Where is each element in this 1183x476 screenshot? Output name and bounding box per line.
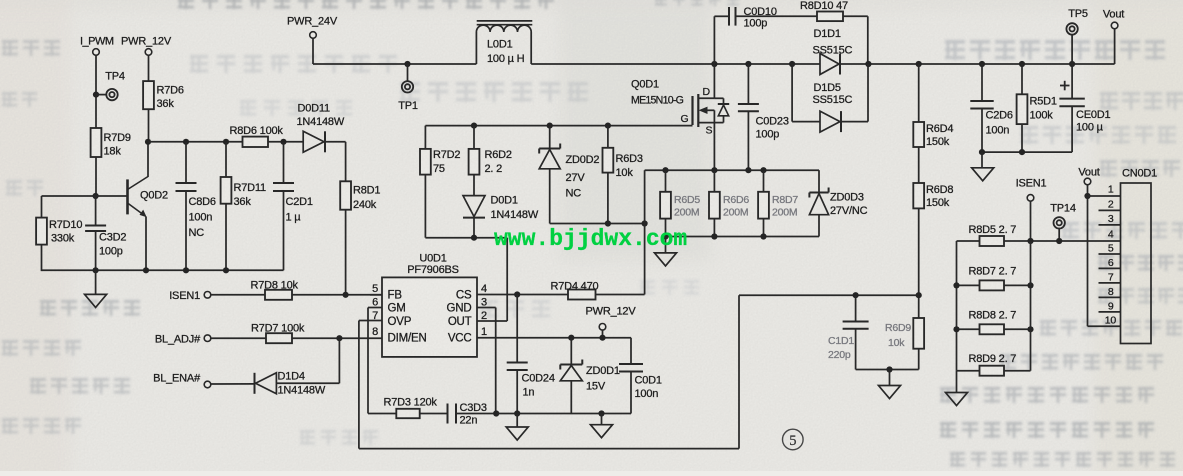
ground symbol mid (601, 414, 603, 425)
wire R7D8 to FB pin (292, 294, 382, 296)
node C3D2 ground (93, 267, 99, 273)
node R5D1 bottom (1019, 149, 1025, 155)
svg-text:100p: 100p (756, 129, 780, 141)
node R8D7 right (1027, 282, 1033, 288)
inductor L0D1 (475, 32, 477, 64)
svg-text:C2D1: C2D1 (286, 196, 313, 208)
wire base node left (42, 195, 96, 197)
schematic sheet number 5 (783, 429, 804, 450)
node PWR_12V (599, 335, 605, 341)
svg-text:1N4148W: 1N4148W (278, 385, 326, 397)
svg-text:R8D5 2. 7: R8D5 2. 7 (969, 224, 1017, 236)
wire ISEN1 to R7D8 (211, 294, 265, 296)
svg-text:ZD0D3: ZD0D3 (830, 192, 864, 204)
svg-text:5: 5 (1108, 243, 1114, 255)
svg-text:36k: 36k (234, 196, 252, 208)
node OVP sense (916, 292, 922, 298)
svg-text:CS: CS (456, 290, 472, 302)
capacitor C0D10 bypass (713, 16, 715, 64)
wire collector up (147, 142, 149, 177)
wire drain (713, 64, 715, 98)
body diode Q0D1 (714, 97, 723, 99)
node R6D5 bottom (662, 233, 668, 239)
node base (93, 193, 99, 199)
diode D0D11 (303, 131, 324, 152)
node R8D7 bottom (760, 233, 766, 239)
node C2D6 top (979, 61, 985, 67)
node R6D6 bottom (711, 233, 717, 239)
pin 2 stub (1099, 209, 1121, 211)
node C8D6 ground (183, 267, 189, 273)
svg-text:R8D7: R8D7 (772, 194, 798, 206)
wire R7D4 to CS net vertical (596, 294, 645, 296)
node R6D3 top (605, 123, 611, 129)
node collector rail left (145, 139, 151, 145)
ground symbol 200M group (665, 237, 667, 253)
svg-text:200M: 200M (674, 207, 699, 219)
svg-text:1N4148W: 1N4148W (491, 209, 539, 221)
node snub ground (886, 366, 892, 372)
svg-text:C0D23: C0D23 (756, 116, 789, 128)
svg-text:200M: 200M (772, 207, 797, 219)
node TP5 junction (1069, 61, 1075, 67)
svg-text:R6D3: R6D3 (616, 153, 643, 165)
capacitor C2D1 (283, 142, 285, 183)
node drain (711, 61, 717, 67)
wire output filter ground rail (982, 151, 1072, 153)
ground symbol left (95, 270, 97, 294)
wire PWR_24V down (312, 38, 314, 64)
transistor Q0D2 (126, 179, 129, 214)
resistor R8D7 (763, 170, 765, 192)
wire D1D4 up to DIM node (338, 338, 340, 383)
svg-text:8: 8 (372, 326, 378, 338)
wire R7D10 to ground rail (41, 245, 43, 272)
wire 200M group top rail (645, 169, 819, 171)
node C1D1 top (853, 292, 859, 298)
capacitor CE0D1 electrolytic (1060, 85, 1070, 87)
wire GM pin to compensation (368, 307, 382, 309)
resistor R6D6 (713, 170, 715, 192)
diode D1D4 (256, 373, 277, 394)
wire R7D9 to base node (95, 157, 97, 196)
svg-text:100n: 100n (189, 212, 213, 224)
svg-text:SS515C: SS515C (813, 94, 853, 106)
capacitor C2D6 (981, 64, 983, 101)
svg-text:1: 1 (1108, 184, 1114, 196)
node R8D7 left (953, 282, 959, 288)
svg-text:330k: 330k (51, 233, 75, 245)
svg-text:75: 75 (433, 163, 445, 175)
wire D0D11 to R8D1 (326, 141, 346, 143)
ground symbol output filter (981, 152, 983, 168)
svg-text:TP4: TP4 (105, 71, 125, 83)
node ISEN1 tap (1027, 238, 1033, 244)
wire PWR_12V down (148, 55, 150, 81)
node TP4 junction (93, 92, 99, 98)
node R5D1 top (1019, 61, 1025, 67)
svg-text:ISEN1: ISEN1 (1016, 178, 1047, 190)
node Vout pin1 (1084, 193, 1090, 199)
node FB (343, 292, 349, 298)
wire rail inductor to D1D1 (531, 63, 820, 65)
node GND compensation (493, 410, 499, 416)
wire 200M group bottom rail (666, 236, 820, 238)
node R7D11 ground (223, 267, 229, 273)
wire BL_ENA to D1D4 (211, 383, 255, 385)
svg-text:BL_ADJ#: BL_ADJ# (155, 334, 201, 346)
svg-text:100k: 100k (1030, 110, 1054, 122)
wire VCC pin right (477, 337, 631, 339)
node ZD0D1 top (568, 335, 574, 341)
wire compensation ground run (496, 413, 631, 415)
svg-text:R6D6: R6D6 (723, 194, 749, 206)
pin 7 stub (1099, 282, 1121, 284)
zener diode ZD0D1 (570, 338, 572, 365)
resistor R6D4 (918, 64, 920, 122)
svg-text:10k: 10k (888, 337, 905, 349)
svg-text:R7D9: R7D9 (104, 132, 131, 144)
svg-text:R7D10: R7D10 (49, 219, 82, 231)
capacitor C3D2 (95, 196, 97, 226)
wire D1D1 cathode to output rail (841, 63, 1115, 65)
wire gate drive bus (425, 237, 507, 239)
svg-text:R7D4 470: R7D4 470 (551, 281, 599, 293)
node C0D23 bottom (745, 167, 751, 173)
ground symbol snub (889, 370, 891, 386)
svg-text:10: 10 (1105, 315, 1117, 327)
node R7D11 top (223, 139, 229, 145)
svg-text:CN0D1: CN0D1 (1122, 168, 1157, 180)
resistor R8D6 (243, 137, 269, 147)
svg-text:5: 5 (372, 283, 378, 295)
svg-text:NC: NC (189, 227, 205, 239)
svg-text:R6D8: R6D8 (926, 184, 953, 196)
resistor R8D8 (957, 328, 1031, 330)
svg-text:NC: NC (566, 188, 582, 200)
svg-text:100p: 100p (744, 18, 768, 30)
capacitor C0D1 (630, 338, 632, 364)
node D1D5 branch (789, 61, 795, 67)
wire OUT pin up to gate drive (477, 320, 507, 322)
pin 6 stub (1099, 267, 1121, 269)
node R6D4 top (916, 61, 922, 67)
wire Vout bus (1087, 185, 1089, 326)
svg-text:OVP: OVP (388, 316, 412, 328)
resistor R7D2 (420, 149, 431, 175)
pin 5 stub (1099, 253, 1121, 255)
pin 10 stub (1088, 325, 1121, 327)
svg-text:R7D8 10k: R7D8 10k (251, 280, 299, 292)
svg-text:150k: 150k (926, 197, 950, 209)
svg-text:FB: FB (388, 290, 403, 302)
svg-text:C3D2: C3D2 (99, 232, 126, 244)
svg-text:1 µ: 1 µ (286, 212, 302, 224)
node R6D2 top (471, 123, 477, 129)
svg-text:ZD0D2: ZD0D2 (566, 154, 600, 166)
svg-text:100 µ: 100 µ (1076, 122, 1104, 134)
svg-text:R8D1: R8D1 (353, 185, 380, 197)
svg-text:TP1: TP1 (398, 100, 418, 112)
svg-text:2: 2 (1108, 199, 1114, 211)
op-amp U1 IC U0D1 PF7906BS (382, 277, 477, 357)
svg-text:R7D11: R7D11 (234, 182, 267, 194)
diode D1D1 (820, 54, 839, 75)
resistor R7D7 (266, 333, 292, 343)
svg-text:15V: 15V (586, 381, 606, 393)
svg-text:6: 6 (1108, 257, 1114, 269)
wire zener sense run (550, 223, 645, 225)
svg-text:18k: 18k (104, 146, 122, 158)
wire TP14 down (1058, 228, 1060, 241)
wire left leg down (41, 196, 43, 218)
wire ISEN1 down (1030, 201, 1032, 241)
svg-text:C2D6: C2D6 (986, 110, 1013, 122)
svg-text:R8D9 2. 7: R8D9 2. 7 (969, 353, 1017, 365)
svg-text:D1D4: D1D4 (278, 371, 305, 383)
node source junction (711, 167, 717, 173)
svg-text:36k: 36k (157, 98, 175, 110)
resistor R7D8 (265, 290, 292, 300)
svg-text:Q0D2: Q0D2 (140, 190, 168, 202)
wire to TP4 (96, 94, 107, 96)
svg-text:5: 5 (789, 433, 796, 449)
test point TP1 (407, 64, 409, 81)
svg-text:100n: 100n (635, 388, 659, 400)
svg-text:PWR_24V: PWR_24V (287, 16, 338, 28)
svg-text:R7D7 100k: R7D7 100k (251, 323, 305, 335)
svg-text:C3D3: C3D3 (460, 402, 487, 414)
wire GND pin down (477, 307, 496, 309)
wire R8D10 to rail (843, 15, 868, 17)
svg-text:1: 1 (481, 326, 487, 338)
wire R7D2 to drive bus (424, 175, 426, 238)
svg-text:240k: 240k (353, 199, 377, 211)
resistor R6D8 (913, 183, 924, 208)
svg-text:R8D7 2. 7: R8D7 2. 7 (969, 266, 1017, 278)
svg-text:S: S (706, 125, 713, 137)
svg-text:D1D5: D1D5 (814, 82, 841, 94)
ground rail bottom left (42, 269, 284, 271)
svg-text:www.bjjdwx.com: www.bjjdwx.com (494, 226, 687, 252)
svg-text:R6D4: R6D4 (926, 123, 953, 135)
svg-text:R7D6: R7D6 (157, 85, 184, 97)
svg-text:L0D1: L0D1 (487, 39, 513, 51)
node R8D7 top (760, 167, 766, 173)
svg-text:ZD0D1: ZD0D1 (586, 365, 620, 377)
svg-text:100p: 100p (99, 246, 123, 258)
node R8D8 left (953, 326, 959, 332)
node C0D23 top (745, 61, 751, 67)
node D0D1 bottom (471, 235, 477, 241)
svg-text:VCC: VCC (448, 333, 472, 345)
svg-text:C8D6: C8D6 (189, 196, 216, 208)
zener diode ZD0D2 (549, 126, 551, 149)
svg-text:I_PWM: I_PWM (80, 36, 114, 48)
node ZD0D2 top (547, 123, 553, 129)
node TP14 tap (1056, 238, 1062, 244)
wire top rail to inductor (313, 63, 476, 65)
pin 9 stub (1099, 311, 1121, 313)
node bypass return (865, 61, 871, 67)
resistor R7D10 (36, 218, 47, 245)
resistor R7D11 (225, 142, 227, 177)
resistor R8D10 (817, 12, 843, 22)
svg-text:Q0D1: Q0D1 (631, 79, 659, 91)
node R6D5 top (662, 167, 668, 173)
wire OVP sense rail (739, 294, 919, 296)
wire C1D1 R6D9 bottom (856, 369, 919, 371)
wire gate row (425, 125, 692, 127)
svg-text:1N4148W: 1N4148W (297, 116, 345, 128)
svg-text:220p: 220p (828, 349, 851, 361)
svg-text:U0D1: U0D1 (419, 253, 446, 265)
wire sense right bus (1030, 241, 1032, 371)
svg-text:R7D3 120k: R7D3 120k (384, 397, 438, 409)
resistor R8D1 (340, 181, 351, 209)
svg-text:C0D10: C0D10 (744, 6, 777, 18)
svg-text:8: 8 (1108, 286, 1114, 298)
wire OVP riser (738, 295, 740, 448)
paper grain (0, 0, 1, 1)
diode D0D1 (473, 175, 475, 196)
resistor R7D4 (568, 290, 596, 300)
svg-text:TP5: TP5 (1068, 8, 1088, 20)
svg-text:C0D1: C0D1 (635, 375, 662, 387)
resistor R7D6 (143, 81, 154, 109)
svg-text:R8D8 2. 7: R8D8 2. 7 (969, 310, 1017, 322)
resistor R6D9 (913, 318, 924, 349)
node DIM/EN junction (336, 335, 342, 341)
node emitter ground (143, 267, 149, 273)
svg-text:R6D9: R6D9 (885, 322, 911, 334)
svg-text:22n: 22n (460, 415, 478, 427)
svg-text:R8D6 100k: R8D6 100k (230, 125, 284, 137)
svg-text:10k: 10k (616, 167, 634, 179)
svg-text:C0D24: C0D24 (522, 373, 555, 385)
capacitor C3D3 (420, 413, 447, 415)
resistor R5D1 (1021, 64, 1023, 94)
wire gate leg down (424, 126, 426, 149)
svg-text:R8D10 47: R8D10 47 (800, 0, 848, 12)
resistor R6D5 (665, 170, 667, 192)
pin 4 wire ISEN (957, 240, 1121, 242)
svg-text:DIM/EN: DIM/EN (388, 333, 427, 345)
svg-text:D0D11: D0D11 (298, 103, 331, 115)
svg-text:R7D2: R7D2 (433, 149, 460, 161)
svg-text:PF7906BS: PF7906BS (407, 264, 459, 276)
svg-text:OUT: OUT (448, 316, 472, 328)
resistor R7D3 (396, 409, 419, 418)
svg-text:200M: 200M (723, 207, 748, 219)
resistor R8D5 (980, 236, 1005, 246)
capacitor C0D23 (747, 64, 749, 104)
svg-text:G: G (681, 113, 689, 125)
svg-text:BL_ENA#: BL_ENA# (153, 373, 201, 385)
capacitor C0D24 (516, 295, 518, 363)
wire sense left bus (956, 241, 958, 371)
svg-text:D1D1: D1D1 (814, 28, 841, 40)
svg-text:R6D2: R6D2 (485, 149, 512, 161)
wire OVP long bottom run (359, 448, 739, 450)
svg-text:PWR_12V: PWR_12V (586, 306, 637, 318)
node C2D1 top (280, 139, 286, 145)
svg-text:7: 7 (1108, 272, 1114, 284)
diode D1D5 parallel (791, 64, 793, 122)
capacitor C8D6 (185, 142, 187, 183)
svg-text:C1D1: C1D1 (828, 335, 854, 347)
svg-text:9: 9 (1108, 301, 1114, 313)
svg-text:4: 4 (481, 283, 487, 295)
wire emitter down (145, 217, 147, 271)
svg-text:R5D1: R5D1 (1030, 96, 1057, 108)
net label Vout top (1114, 29, 1116, 64)
wire OVP pin down (359, 320, 382, 322)
svg-text:2. 2: 2. 2 (485, 163, 503, 175)
node CS sense junction (642, 220, 648, 226)
svg-text:3: 3 (1108, 213, 1114, 225)
wire BL_ADJ to R7D7 (211, 337, 266, 339)
resistor R7D9 (91, 128, 102, 157)
wire base to Q0D2 (96, 195, 127, 197)
svg-text:GND: GND (447, 303, 472, 315)
svg-text:D: D (703, 86, 711, 98)
zener diode ZD0D3 (818, 170, 820, 192)
svg-text:Vout: Vout (1078, 167, 1099, 179)
node R6D3 bottom (605, 220, 611, 226)
svg-text:SS515C: SS515C (813, 45, 853, 57)
node mid ground (598, 410, 604, 416)
node C0D24 top (514, 291, 520, 297)
wire source down (713, 123, 715, 171)
svg-text:ISEN1: ISEN1 (169, 290, 200, 302)
svg-text:27V/NC: 27V/NC (830, 205, 868, 217)
pin 3 stub (1099, 224, 1121, 226)
node R8D8 right (1027, 326, 1033, 332)
node C8D6 top (183, 139, 189, 145)
pin 1 stub (1088, 195, 1121, 197)
svg-text:D0D1: D0D1 (491, 195, 518, 207)
svg-text:Vout: Vout (1103, 9, 1124, 21)
wire R6D4 to R6D8 (918, 147, 920, 183)
resistor R6D2 (473, 126, 475, 149)
wire CS net vertical (644, 170, 646, 294)
wire R8D6 to C2D1 node (268, 141, 303, 143)
resistor R8D7 sense (957, 284, 1031, 286)
svg-text:PWR_12V: PWR_12V (121, 36, 172, 48)
wire CS pin right (477, 294, 568, 296)
node TP1 (404, 61, 410, 67)
node C2D6 bottom (979, 149, 985, 155)
ground symbol C0D24 (516, 414, 518, 428)
wire I_PWM vertical (95, 55, 97, 128)
svg-text:100 µ H: 100 µ H (487, 53, 525, 65)
wire R6D8 down (918, 208, 920, 318)
wire R7D7 to DIM/EN pin (292, 337, 382, 339)
resistor R8D9 (957, 370, 1031, 372)
ground symbol sense (956, 371, 958, 393)
svg-text:27V: 27V (566, 172, 586, 184)
svg-text:CE0D1: CE0D1 (1076, 109, 1111, 121)
svg-text:4: 4 (1108, 229, 1114, 241)
svg-text:TP14: TP14 (1050, 203, 1076, 215)
svg-text:150k: 150k (926, 136, 950, 148)
wire collector rail (148, 141, 243, 143)
svg-text:GM: GM (388, 303, 406, 315)
wire R7D6 to collector rail (148, 109, 150, 142)
svg-text:R6D5: R6D5 (674, 194, 700, 206)
wire R8D1 down to FB node (345, 210, 347, 295)
